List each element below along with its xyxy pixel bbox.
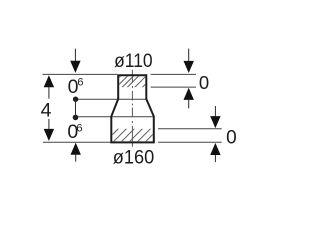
dimension line bottom-left (extension at bottom edge level)	[43, 141, 111, 143]
right bottom up arrow	[210, 143, 220, 155]
leader dot upper	[73, 97, 78, 102]
dimension line right-bottom outer	[158, 141, 222, 143]
svg-text:6: 6	[77, 76, 83, 88]
right bottom down arrow	[210, 116, 220, 128]
dimension line right-top outer	[151, 73, 196, 75]
dim 4 up arrow	[44, 75, 54, 87]
left bottom up arrow tail	[75, 155, 77, 162]
right top down arrow tail	[188, 49, 190, 62]
left top down arrow tail	[74, 49, 76, 61]
internal shoulder line lower (taper end)	[76, 116, 154, 118]
dimension line right-top inner (socket depth)	[151, 86, 196, 88]
left top down arrow	[70, 61, 80, 73]
dimension line right-bottom inner (socket depth)	[158, 128, 222, 130]
right top up arrow	[184, 88, 194, 100]
reducer body outline	[111, 75, 154, 142]
leader dot lower	[73, 115, 79, 121]
dimension line top-left (extension at top edge level)	[43, 73, 118, 75]
hatch top band (cross-section hatching upper socket)	[37, 60, 170, 160]
right top up arrow tail	[188, 100, 190, 109]
dim 4 vertical line lower tail	[48, 119, 50, 130]
centerline (vertical dash-dot axis)	[131, 70, 133, 147]
hatch bottom band (cross-section hatching lower socket)	[47, 80, 215, 200]
left bottom up arrow	[71, 143, 81, 155]
svg-text:0: 0	[199, 72, 209, 93]
internal shoulder line upper (taper start)	[76, 98, 146, 100]
svg-text:ø110: ø110	[114, 50, 153, 72]
svg-text:0: 0	[226, 127, 237, 148]
right bottom down arrow tail	[214, 106, 216, 117]
dim 4 vertical line upper tail	[48, 87, 50, 99]
svg-text:4: 4	[41, 100, 52, 122]
leader vertical link between dots	[75, 99, 77, 117]
svg-text:6: 6	[76, 122, 82, 134]
right bottom up arrow tail	[214, 155, 216, 162]
right top down arrow	[184, 61, 194, 73]
svg-text:ø160: ø160	[113, 146, 155, 168]
dim 4 down arrow	[44, 129, 54, 141]
